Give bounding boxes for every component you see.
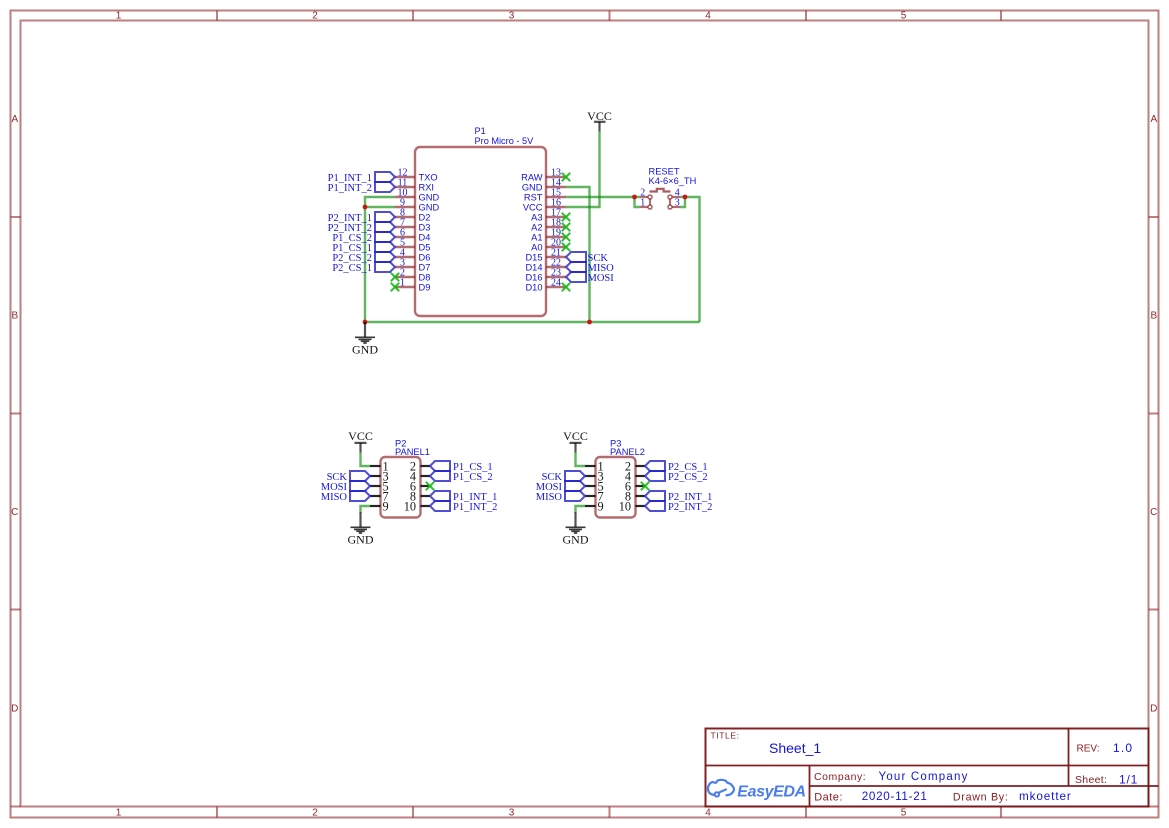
no-connect P2 pin 6 [426, 482, 434, 490]
svg-text:Date:: Date: [814, 791, 843, 803]
net flag MOSI (P3) [536, 481, 585, 493]
svg-text:D7: D7 [419, 262, 431, 272]
svg-text:TXO: TXO [419, 172, 438, 182]
svg-text:RST: RST [524, 192, 543, 202]
svg-text:GND: GND [352, 343, 378, 357]
svg-text:5: 5 [901, 11, 907, 22]
net flag MOSI [566, 272, 614, 284]
net flag MISO (P3) [536, 491, 585, 503]
svg-text:EasyEDA: EasyEDA [737, 783, 805, 800]
net flag P2_CS_1 (P3) [645, 461, 708, 473]
P1 pin 16 (VCC) [523, 198, 566, 213]
svg-text:C: C [1150, 507, 1157, 518]
svg-text:D4: D4 [419, 232, 431, 242]
wire RST: pin15 to switch [566, 196, 635, 198]
svg-text:B: B [1150, 311, 1157, 322]
svg-text:GND: GND [563, 533, 589, 547]
svg-text:RXI: RXI [419, 182, 435, 192]
svg-text:Drawn By:: Drawn By: [953, 791, 1009, 803]
svg-text:3: 3 [509, 11, 515, 22]
P1 pin 17 (A3) [531, 208, 566, 223]
P1 pin 23 (D16) [525, 268, 566, 283]
svg-text:A0: A0 [531, 242, 542, 252]
svg-text:Pro Micro - 5V: Pro Micro - 5V [475, 136, 535, 146]
svg-text:GND: GND [419, 192, 440, 202]
P3 pin 6 [625, 479, 645, 493]
net flag P1_INT_1 [328, 172, 395, 184]
P1 pin 12 (TXO) [395, 168, 438, 183]
P3 pin 1 [585, 459, 604, 473]
svg-text:B: B [11, 311, 18, 322]
svg-text:GND: GND [419, 202, 440, 212]
no-connect pin 17 [562, 213, 570, 221]
connector P3 PANEL2 [596, 439, 645, 518]
net flag SCK (P3) [542, 471, 585, 483]
svg-text:TITLE:: TITLE: [711, 730, 740, 740]
power flag GND (P3) [563, 512, 589, 547]
P2 pin 1 [370, 459, 389, 473]
net flag P2_INT_1 (P3) [645, 491, 712, 503]
junction [587, 320, 592, 325]
net flag P1_INT_2 [328, 182, 395, 194]
wire GND: pin14 down to bottom rail [566, 187, 590, 322]
svg-text:1: 1 [116, 808, 122, 819]
P1 pin 18 (A2) [531, 218, 566, 233]
P2 pin 5 [370, 479, 389, 493]
svg-text:P1: P1 [475, 126, 486, 136]
P2 pin 3 [370, 469, 389, 483]
svg-text:MISO: MISO [321, 492, 348, 503]
svg-text:3: 3 [675, 197, 680, 208]
svg-text:1: 1 [640, 197, 645, 208]
svg-text:K4-6×6_TH: K4-6×6_TH [649, 176, 697, 186]
P1 pin 19 (A1) [531, 228, 566, 243]
svg-text:10: 10 [619, 499, 631, 513]
no-connect P3 pin 6 [641, 482, 649, 490]
svg-text:Sheet_1: Sheet_1 [769, 740, 821, 756]
svg-text:MISO: MISO [536, 492, 563, 503]
P1 pin 13 (RAW) [521, 168, 566, 183]
net flag P2_INT_2 [328, 222, 395, 234]
svg-text:Sheet:: Sheet: [1075, 774, 1107, 786]
svg-text:GND: GND [522, 182, 543, 192]
net flag MOSI (P2) [321, 481, 370, 493]
junction [363, 205, 368, 210]
svg-text:4: 4 [705, 11, 711, 22]
svg-text:P1_CS_2: P1_CS_2 [453, 472, 493, 483]
P1 pin 24 (D10) [525, 278, 566, 293]
net flag P2_CS_2 (P3) [645, 471, 708, 483]
svg-text:Your Company: Your Company [879, 771, 969, 783]
net flag MISO [566, 262, 614, 274]
wire RST: switch left jumpers [635, 197, 641, 207]
svg-text:RESET: RESET [649, 166, 680, 176]
P1 pin 3 (D7) [395, 258, 430, 273]
svg-text:D: D [1150, 704, 1157, 715]
power flag VCC (P2) [348, 429, 373, 452]
P1 pin 9 (GND) [395, 198, 439, 213]
svg-text:D9: D9 [419, 282, 431, 292]
power flag GND (P2) [348, 512, 374, 547]
no-connect pin 13 [562, 173, 570, 181]
svg-text:GND: GND [348, 533, 374, 547]
wire VCC to P3 pin1 [576, 453, 586, 467]
P2 pin 9 [370, 499, 389, 513]
junction [683, 195, 688, 200]
no-connect pin 19 [562, 233, 570, 241]
net flag SCK [566, 252, 608, 264]
title block texts [711, 730, 1139, 803]
P3 pin 3 [585, 469, 604, 483]
P1 pin 7 (D3) [395, 218, 430, 233]
P1 pin 21 (D15) [525, 248, 566, 263]
svg-text:Company:: Company: [814, 771, 866, 783]
power flag VCC (top) [587, 109, 612, 132]
svg-text:C: C [11, 507, 18, 518]
svg-text:P1_INT_2: P1_INT_2 [453, 502, 497, 513]
title block [706, 729, 1159, 807]
P1 pin 10 (GND) [395, 188, 439, 203]
svg-text:4: 4 [705, 808, 711, 819]
wire VCC: pin16 up to VCC flag [566, 132, 600, 208]
svg-text:5: 5 [901, 808, 907, 819]
svg-text:24: 24 [551, 278, 561, 289]
svg-text:P2_INT_2: P2_INT_2 [668, 502, 712, 513]
svg-text:2: 2 [312, 808, 318, 819]
svg-text:1: 1 [116, 11, 122, 22]
svg-text:P2_CS_2: P2_CS_2 [668, 472, 708, 483]
net flag P2_INT_2 (P3) [645, 501, 712, 513]
component P1 Pro Micro - 5V [415, 126, 546, 316]
svg-text:D: D [11, 704, 18, 715]
wire VCC to P2 pin1 [361, 453, 371, 467]
svg-text:VCC: VCC [563, 429, 588, 443]
P1 pin 2 (D8) [395, 268, 430, 283]
net flag P2_INT_1 [328, 212, 395, 224]
net flag MISO (P2) [321, 491, 370, 503]
svg-text:A2: A2 [531, 222, 542, 232]
svg-text:1/1: 1/1 [1119, 773, 1138, 787]
svg-text:D2: D2 [419, 212, 431, 222]
svg-text:mkoetter: mkoetter [1019, 790, 1072, 803]
svg-text:P2_CS_1: P2_CS_1 [332, 263, 372, 274]
svg-text:VCC: VCC [587, 109, 612, 123]
svg-text:D8: D8 [419, 272, 431, 282]
junction [363, 320, 368, 325]
P2 pin 4 [410, 469, 430, 483]
wire GND: switch right jumpers [680, 197, 700, 322]
power flag VCC (P3) [563, 429, 588, 452]
wire P2 pin9 to GND [361, 506, 371, 513]
no-connect pin 24 [562, 283, 570, 291]
P1 pin 4 (D6) [395, 248, 430, 263]
P1 pin 1 (D9) [395, 278, 430, 293]
svg-text:D10: D10 [525, 282, 542, 292]
svg-text:PANEL2: PANEL2 [610, 447, 645, 457]
P3 pin 10 [619, 499, 645, 513]
svg-text:RAW: RAW [521, 172, 543, 182]
svg-text:3: 3 [509, 808, 515, 819]
svg-text:9: 9 [598, 499, 604, 513]
svg-text:1.0: 1.0 [1113, 741, 1133, 755]
net flag P1_CS_2 (P2) [430, 471, 493, 483]
net flag P1_CS_2 [332, 232, 395, 244]
P1 pin 15 (RST) [524, 188, 566, 203]
connector P2 PANEL1 [381, 439, 430, 518]
wire GND: pin10 to left rail [365, 197, 395, 322]
svg-text:REV:: REV: [1077, 744, 1100, 755]
P2 pin 7 [370, 489, 389, 503]
P3 pin 5 [585, 479, 604, 493]
svg-text:D5: D5 [419, 242, 431, 252]
svg-text:P1_INT_2: P1_INT_2 [328, 183, 372, 194]
wire GND: bottom rail [365, 321, 700, 323]
P3 pin 9 [585, 499, 604, 513]
no-connect pin 18 [562, 223, 570, 231]
P2 pin 6 [410, 479, 430, 493]
net flag P1_CS_1 [332, 242, 395, 254]
svg-text:10: 10 [404, 499, 416, 513]
wire GND: pin9 to left rail [365, 206, 395, 208]
svg-text:2: 2 [312, 11, 318, 22]
P3 pin 8 [625, 489, 645, 503]
P1 pin 6 (D4) [395, 228, 430, 243]
svg-text:VCC: VCC [348, 429, 373, 443]
no-connect pin 2 D8 [391, 273, 399, 281]
svg-text:A: A [11, 114, 18, 125]
EasyEDA logo [708, 780, 806, 801]
net flag P1_INT_1 (P2) [430, 491, 497, 503]
net flag P1_INT_2 (P2) [430, 501, 497, 513]
switch RESET K4-6x6_TH [640, 166, 696, 209]
svg-text:VCC: VCC [523, 202, 543, 212]
P1 pin 20 (A0) [531, 238, 566, 253]
wire P3 pin9 to GND [576, 506, 586, 513]
svg-text:A: A [1150, 114, 1157, 125]
svg-text:2020-11-21: 2020-11-21 [862, 790, 928, 803]
P1 pin 14 (GND) [522, 178, 566, 193]
P1 pin 11 (RXI) [395, 178, 434, 193]
svg-text:MOSI: MOSI [588, 273, 615, 284]
svg-text:D16: D16 [525, 272, 542, 282]
svg-text:A1: A1 [531, 232, 542, 242]
net flag P2_CS_1 [332, 262, 395, 274]
no-connect pin 20 [562, 243, 570, 251]
P2 pin 10 [404, 499, 430, 513]
svg-text:9: 9 [383, 499, 389, 513]
svg-text:D14: D14 [525, 262, 542, 272]
P2 pin 2 [410, 459, 430, 473]
net flag P1_CS_1 (P2) [430, 461, 493, 473]
no-connect pin 1 D9 [391, 283, 399, 291]
P1 pin 8 (D2) [395, 208, 430, 223]
svg-text:A3: A3 [531, 212, 542, 222]
P1 pin 22 (D14) [525, 258, 566, 273]
svg-text:D15: D15 [525, 252, 542, 262]
P2 pin 8 [410, 489, 430, 503]
svg-text:D6: D6 [419, 252, 431, 262]
P3 pin 4 [625, 469, 645, 483]
P3 pin 7 [585, 489, 604, 503]
net flag SCK (P2) [327, 471, 370, 483]
P1 pin 5 (D5) [395, 238, 430, 253]
net flag P2_CS_2 [332, 252, 395, 264]
P3 pin 2 [625, 459, 645, 473]
power flag GND (main) [352, 322, 378, 357]
svg-text:1: 1 [400, 278, 405, 289]
junction [632, 195, 637, 200]
svg-text:PANEL1: PANEL1 [395, 447, 430, 457]
svg-text:D3: D3 [419, 222, 431, 232]
